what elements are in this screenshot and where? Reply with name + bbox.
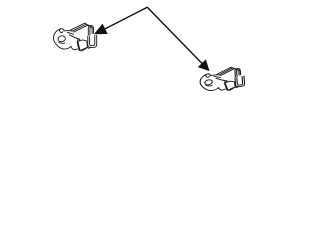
sensor part 2 (lower right) [199, 66, 245, 93]
arrowhead to part 1 [94, 24, 107, 34]
white background [0, 0, 300, 100]
arrowhead to part 2 [198, 60, 209, 71]
sensor part 1 (upper left) [54, 23, 97, 51]
leader line (apex polyline) [105, 7, 202, 63]
